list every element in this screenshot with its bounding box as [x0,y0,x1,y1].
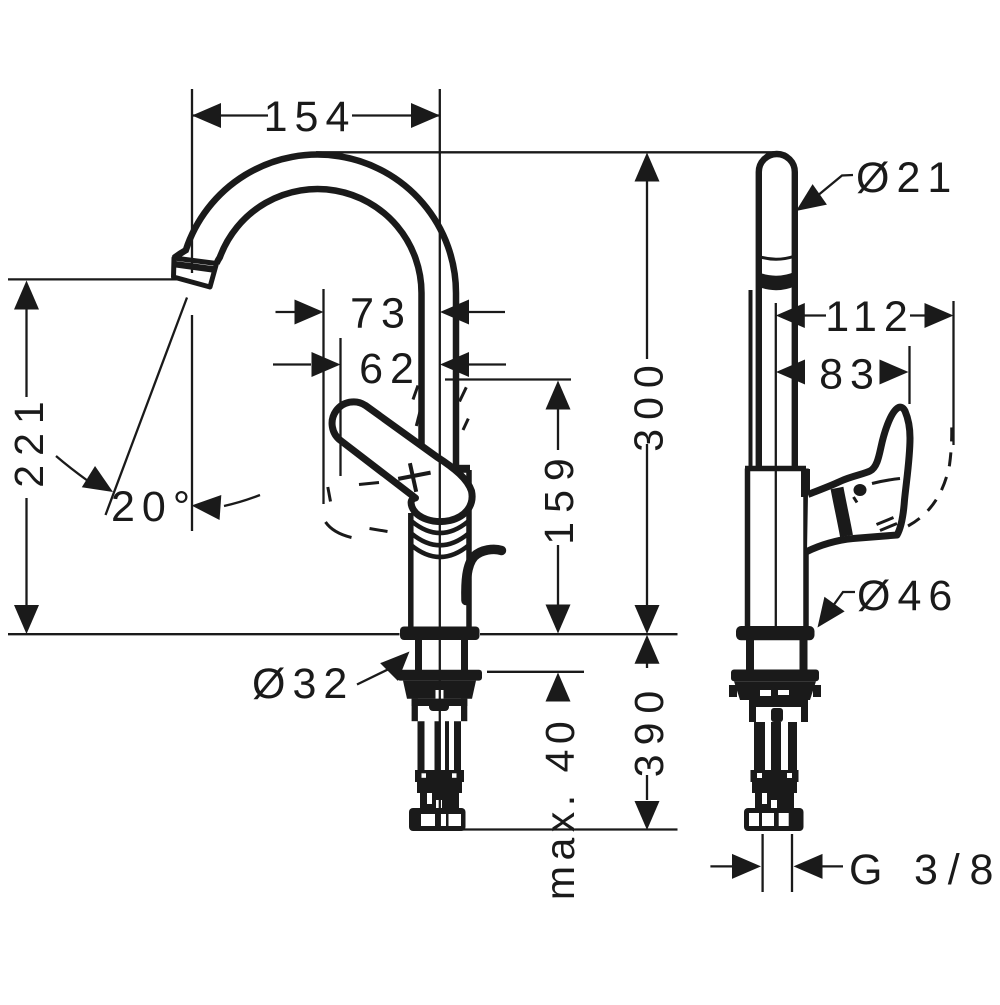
threaded rod lines [418,721,425,770]
front hose nut [751,770,799,782]
dome ring 1 [412,522,468,534]
arrows 159 [546,381,571,410]
ref line 159 top [445,378,571,380]
handle swing dashes [908,421,952,526]
center line right view [775,303,777,627]
dome ring 3 [411,545,469,557]
mounting nut top bar [397,670,482,681]
O46 leader [820,592,855,624]
shank wall right [461,640,468,671]
arrows 154 [192,103,221,128]
dim line 221 [25,308,27,605]
ref line 221 top [8,278,187,280]
deck line left [8,633,400,635]
spout tip cap (aerator) [174,258,217,287]
clamp left column [412,699,418,722]
bottom ref line y829.5 [463,828,678,830]
arrows 390 [635,635,660,664]
clamp top band [412,699,468,706]
body left edge [408,513,414,627]
arrows 62 [312,352,341,377]
ext line 73 [322,289,324,504]
front shank walls [750,640,804,670]
body right edge [466,470,472,627]
arrows 112 [776,303,805,328]
arrow O21 [789,184,827,221]
clamp right column [461,699,467,722]
svg-text:154: 154 [264,93,357,141]
svg-text:83: 83 [819,351,881,399]
deck line middle [480,633,678,635]
handle detail lines [854,479,901,503]
dome ring 2 [412,534,469,546]
arrow 20deg left [82,466,120,503]
dim 73 tail left [276,311,297,313]
top reference line y152 [316,151,775,153]
riser tube [759,154,795,468]
dim line 159 [557,408,559,606]
svg-text:G 3/8: G 3/8 [849,846,1000,894]
dim 73 tail right [469,311,505,313]
arrows 73 [295,300,324,325]
arrows 300 [635,153,660,182]
front handle [807,407,910,551]
O21 leader [814,175,854,199]
handle screw dot [854,484,867,496]
arrow 20deg right [191,493,222,520]
svg-text:112: 112 [825,293,915,341]
lever swing dashes left view [326,386,469,538]
arrows G38 [732,854,761,879]
svg-text:Ø46: Ø46 [857,572,959,620]
front hose end fitting [744,808,804,831]
mounting nut body [403,681,476,699]
arrow max40 [546,673,571,702]
ext line 62 [339,338,341,476]
svg-text:390: 390 [626,682,672,777]
20deg vertical line [191,315,193,531]
front rods [754,722,765,770]
front body left edge [745,469,751,628]
spout tip inner band [175,264,215,269]
ext line 83 right [908,346,910,404]
ext line 154 left [191,89,193,273]
aerator line [757,256,795,259]
svg-text:62: 62 [359,345,421,393]
svg-text:159: 159 [536,449,582,544]
spout inner arc [217,189,422,446]
nut notch [436,690,444,699]
arrow O46 [807,597,844,635]
20deg inclined line [106,298,188,516]
handle lever with boss [332,402,472,522]
front nut top bar [731,670,819,682]
svg-text:221: 221 [6,392,52,487]
hose nut lower [417,782,462,793]
body right shoulder [455,465,470,473]
front nut body [734,681,816,700]
svg-text:Ø32: Ø32 [252,660,354,708]
hose end fitting [409,808,466,831]
ext line 112 right [952,301,954,445]
handle strap [837,488,847,536]
dim line 390 [646,663,648,800]
20deg arc left [56,456,88,481]
center line left view [439,89,441,830]
O32 leader [357,667,394,685]
ref line max40 [487,671,584,673]
dim line 154 [192,114,440,116]
dim line 112 [804,314,926,316]
spout rear contour line [749,290,753,468]
20deg arc right [224,495,260,506]
front body top edge [745,466,806,472]
front body right edge [803,469,809,628]
hose mid section [420,793,459,808]
aerator band [757,272,796,291]
clamp center tab [429,699,449,711]
shank wall left [415,640,422,671]
base flange [400,627,480,641]
dim line G38 [710,865,843,867]
spout outer arc [174,155,456,466]
pop-up rod [466,549,502,600]
svg-text:73: 73 [350,290,412,338]
hose nut upper [415,770,464,782]
svg-text:300: 300 [626,356,672,451]
arrows 221 [14,281,39,310]
ext lines G38 [763,834,792,892]
dim line 300 [646,181,648,606]
front body right edge thick top [801,469,810,497]
arrow O32 [380,643,418,681]
dim 62 tail left [273,363,311,365]
lever plus marker [398,463,430,492]
svg-text:max. 40: max. 40 [537,716,583,900]
arrows 83 [776,360,805,385]
svg-text:Ø21: Ø21 [856,154,958,202]
svg-text:20°: 20° [111,483,197,531]
dim 62 tail right [468,363,506,365]
front clamp [749,700,808,707]
front base flange [736,626,815,640]
